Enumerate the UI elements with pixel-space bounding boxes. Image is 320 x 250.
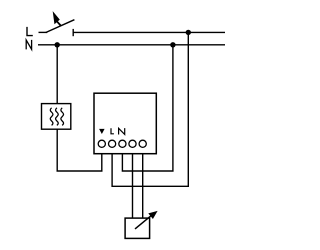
junction node N to heater	[55, 42, 60, 47]
wire terminal 2 to L junction	[112, 32, 188, 186]
wire N line	[38, 44, 225, 46]
triangle marker above terminal 1	[99, 129, 105, 134]
wire L feed stub	[39, 31, 48, 33]
thermostat U1	[94, 93, 156, 154]
wire terminal 5 to actuator	[142, 154, 144, 218]
terminal 2 L	[109, 140, 116, 147]
heater E1	[42, 104, 71, 130]
junction node N to thermostat	[170, 42, 175, 47]
label N (mains neutral)	[26, 40, 31, 50]
terminal 4	[129, 140, 136, 147]
wire terminal 4 to actuator	[132, 154, 134, 218]
terminal 1	[98, 140, 105, 147]
terminal 5	[139, 140, 146, 147]
actuator M1 (valve drive)	[125, 218, 150, 238]
actuator adjustment arrow	[135, 211, 158, 229]
wire terminal 3 to N junction	[122, 45, 172, 171]
wire heater to terminal 1	[57, 129, 102, 171]
wire L line	[73, 31, 225, 33]
switch S (with contact tick)	[46, 20, 75, 37]
wire N junction down to heater	[56, 45, 58, 104]
label L terminal	[111, 128, 114, 134]
label N terminal	[119, 128, 125, 134]
terminal 3 N	[119, 140, 126, 147]
junction node L to thermostat	[186, 30, 191, 35]
switch actuation arrow	[53, 12, 61, 26]
label L (mains phase)	[27, 27, 33, 36]
